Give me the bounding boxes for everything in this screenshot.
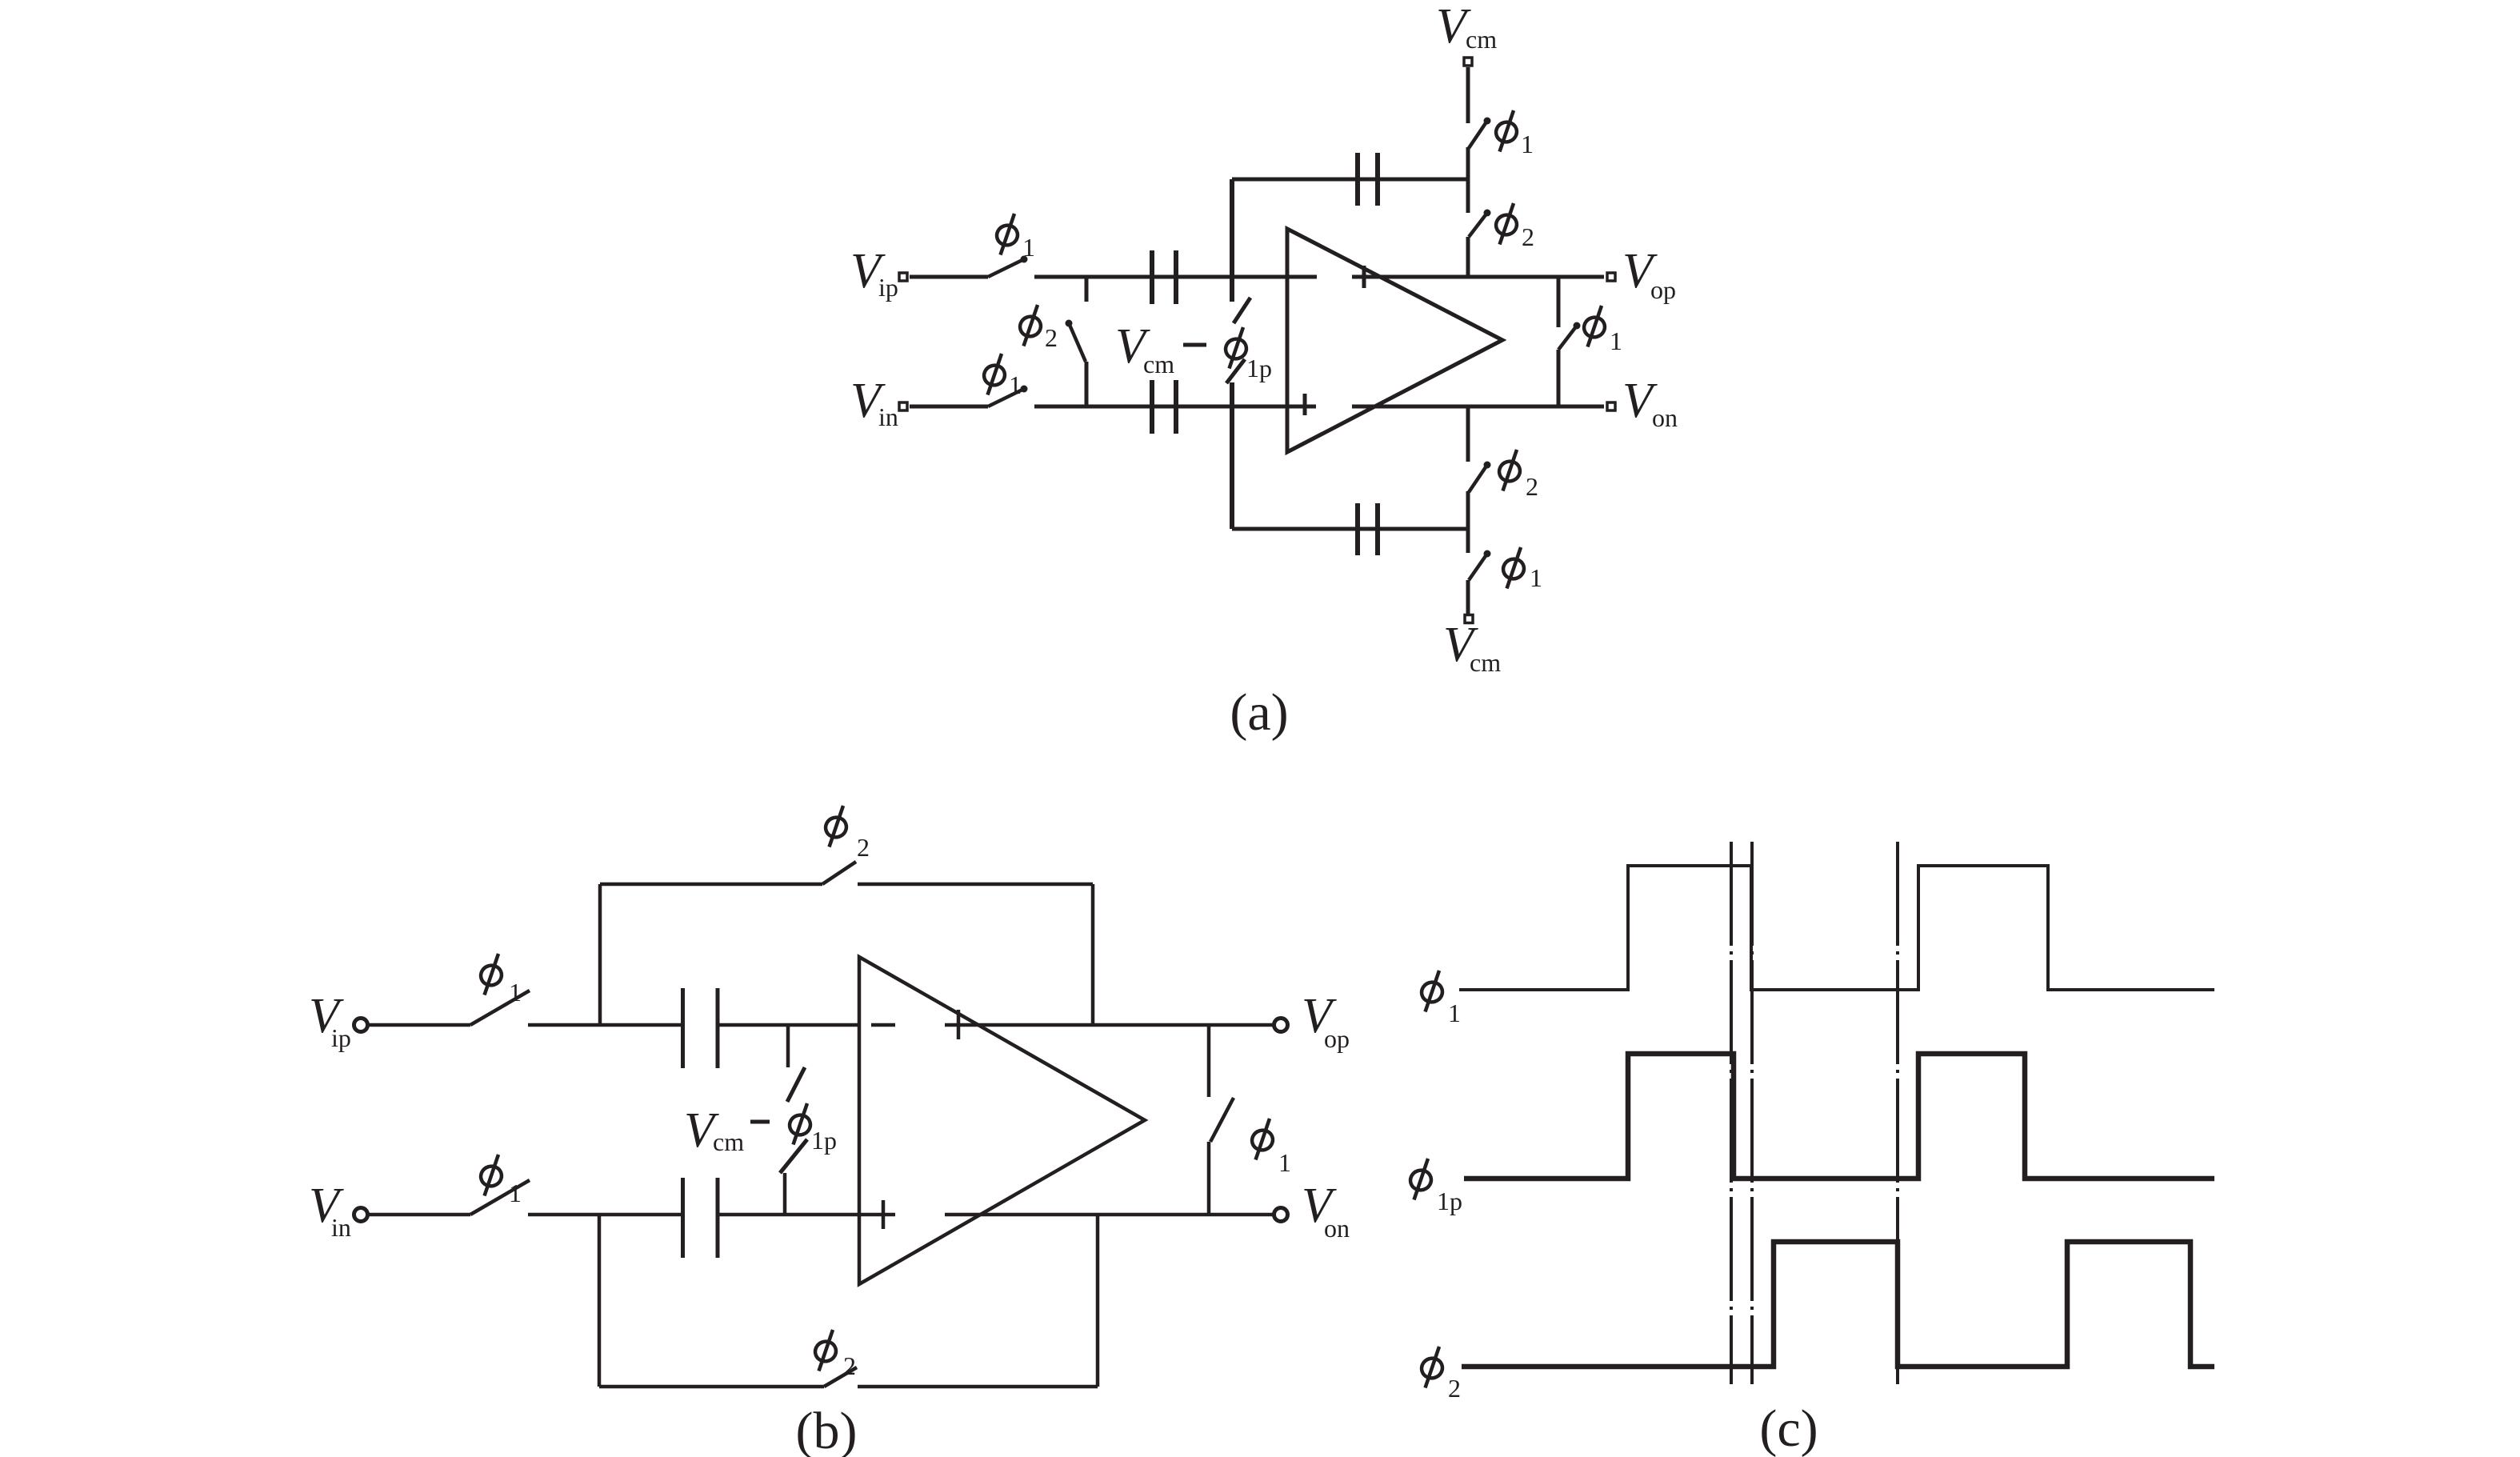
wire top output rail (b) bbox=[945, 1023, 1274, 1027]
node Vcm bottom terminal bbox=[1465, 615, 1473, 623]
label phi2 bottom chain switch (a) bbox=[1497, 450, 1522, 491]
op-amp U2 minus mark top bbox=[871, 1023, 895, 1027]
switch phi1p blade slashes bbox=[1234, 298, 1250, 323]
label phi1p waveform (c) bbox=[1408, 1159, 1434, 1200]
wire top rail after cap (b) bbox=[718, 1023, 859, 1027]
wire bottom feedback row bbox=[1232, 527, 1468, 531]
label phi1 output switch (b) bbox=[1250, 1119, 1275, 1160]
label phi1 waveform (c) bbox=[1419, 971, 1445, 1012]
node Vop output terminal bbox=[1607, 273, 1615, 281]
label phi1 bottom input switch (a) bbox=[982, 354, 1007, 395]
switch phi1p blade slashes (b) bbox=[787, 1067, 805, 1102]
node Vin input terminal bbox=[899, 402, 907, 410]
svg-text:2: 2 bbox=[843, 1351, 856, 1380]
waveform phi1p trace bbox=[1464, 1054, 2214, 1179]
svg-text:1: 1 bbox=[1610, 326, 1622, 355]
label phi2 waveform (c) bbox=[1419, 1347, 1445, 1388]
switch phi1 bottom input blade (b) bbox=[470, 1180, 530, 1215]
svg-text:(b): (b) bbox=[796, 1402, 858, 1457]
wire summing node vertical upper bbox=[1230, 179, 1234, 302]
wire Vin rail left (b) bbox=[368, 1213, 470, 1217]
svg-text:cm: cm bbox=[1470, 648, 1501, 677]
svg-text:op: op bbox=[1324, 1024, 1350, 1053]
svg-text:1: 1 bbox=[1278, 1148, 1291, 1177]
node Vip input terminal (b) bbox=[354, 1019, 368, 1032]
capacitor Cs top input bbox=[1152, 250, 1176, 304]
switch phi1 bottom chain blade bbox=[1469, 554, 1487, 580]
wire Vip rail left bbox=[910, 275, 988, 279]
circuit (b) bbox=[354, 862, 1288, 1387]
label phi2 top chain switch (a) bbox=[1494, 203, 1519, 245]
svg-text:2: 2 bbox=[1522, 222, 1534, 251]
switch phi1 output blade (b) bbox=[1210, 1098, 1234, 1142]
svg-text:in: in bbox=[878, 402, 898, 431]
wire bottom feedback row right (b) bbox=[858, 1385, 1098, 1389]
switch phi1 top chain blade bbox=[1469, 121, 1487, 148]
node Vop output terminal (b) bbox=[1274, 1019, 1288, 1032]
svg-text:1p: 1p bbox=[1246, 354, 1272, 382]
label phi1 top input switch (a) bbox=[994, 214, 1020, 255]
switch phi1 top input blade (b) bbox=[470, 991, 530, 1025]
wire top rail (b) bbox=[528, 1023, 682, 1027]
waveform phi1 trace bbox=[1459, 866, 2214, 990]
switch phi1p lower stub (b) bbox=[783, 1173, 787, 1215]
wire bottom feedback row left (b) bbox=[599, 1385, 824, 1389]
node Von output terminal bbox=[1607, 402, 1615, 410]
wire top rail to opamp bbox=[1034, 275, 1316, 279]
svg-text:2: 2 bbox=[1045, 323, 1058, 352]
wire Vin rail left bbox=[910, 405, 988, 409]
capacitor Cf bottom feedback bbox=[1358, 503, 1378, 555]
svg-text:1: 1 bbox=[1448, 999, 1461, 1027]
op-amp U1 plus output mark top bbox=[1362, 266, 1366, 288]
op-amp U2 plus output mark top bbox=[957, 1010, 961, 1039]
wire Vcm bottom lead bbox=[1466, 580, 1470, 614]
label phi1 top input switch (b) bbox=[478, 954, 504, 995]
node Vin input terminal (b) bbox=[354, 1208, 368, 1222]
svg-text:1: 1 bbox=[509, 1179, 522, 1207]
wire chain to top rail bbox=[1466, 237, 1470, 277]
wire top feedback row right (b) bbox=[858, 883, 1093, 887]
wire bottom output rail bbox=[1352, 405, 1604, 409]
op-amp U2 plus input mark bottom bbox=[882, 1200, 886, 1229]
switch phi1 top input blade bbox=[988, 259, 1024, 277]
wire Vip rail left (b) bbox=[368, 1023, 470, 1027]
switch phi1 bottom input blade bbox=[988, 389, 1024, 406]
wire bottom rail (b) bbox=[528, 1213, 682, 1217]
svg-text:on: on bbox=[1324, 1214, 1350, 1243]
switch phi1 output lower stub (b) bbox=[1207, 1142, 1211, 1215]
phase marker dash-dot line 1 (phi1p fall) bbox=[1730, 842, 1733, 1384]
op-amp U1 bbox=[1287, 229, 1502, 452]
svg-text:in: in bbox=[331, 1213, 351, 1242]
node Von output terminal (b) bbox=[1274, 1208, 1288, 1222]
switch phi2 bottom feedback blade (b) bbox=[824, 1367, 857, 1387]
wire chain mid upper bbox=[1466, 147, 1470, 213]
svg-text:2: 2 bbox=[857, 833, 870, 862]
op-amp U1 minus output mark bottom bbox=[1354, 405, 1376, 409]
label phi1 output switch (a) bbox=[1582, 306, 1607, 347]
svg-text:ip: ip bbox=[878, 273, 898, 302]
node Vcm top terminal bbox=[1464, 58, 1472, 66]
switch phi2 input shorting: upper stub bbox=[1085, 277, 1089, 302]
switch phi2 top feedback blade (b) bbox=[822, 862, 856, 884]
svg-text:1: 1 bbox=[1521, 130, 1534, 158]
label phi1 bottom chain switch (a) bbox=[1501, 547, 1526, 589]
svg-text:1p: 1p bbox=[811, 1126, 837, 1155]
svg-text:cm: cm bbox=[1143, 350, 1174, 378]
capacitor Cs bottom input bbox=[1152, 380, 1176, 434]
phase marker dash-dot line 3 (phi2 fall) bbox=[1896, 842, 1899, 1384]
switch phi1 output: blade bbox=[1558, 326, 1577, 350]
switch phi1 output upper stub (b) bbox=[1207, 1025, 1211, 1097]
svg-text:(a): (a) bbox=[1230, 683, 1288, 742]
svg-text:cm: cm bbox=[1466, 25, 1497, 54]
wire top feedback row left (b) bbox=[600, 883, 822, 887]
capacitor Cf top feedback bbox=[1358, 153, 1378, 206]
op-amp U1 plus input mark bottom bbox=[1303, 394, 1307, 415]
capacitor C2 bottom input (b) bbox=[683, 1178, 718, 1258]
wire chain from bottom rail bbox=[1466, 406, 1470, 462]
svg-text:2: 2 bbox=[1526, 472, 1538, 501]
label phi1 bottom input switch (b) bbox=[478, 1155, 504, 1196]
waveform phi2 trace bbox=[1462, 1242, 2214, 1367]
svg-text:2: 2 bbox=[1448, 1374, 1461, 1403]
svg-text:1p: 1p bbox=[1437, 1187, 1462, 1215]
node Vip input terminal bbox=[899, 273, 907, 281]
switch phi2 bottom chain blade bbox=[1469, 465, 1487, 492]
svg-text:1: 1 bbox=[1022, 233, 1035, 262]
wire bottom rail after cap (b) bbox=[718, 1213, 895, 1217]
wire top output rail bbox=[1352, 275, 1604, 279]
label phi2 input shorting switch (a) bbox=[1018, 305, 1043, 346]
wire summing node vertical lower bbox=[1230, 382, 1234, 529]
wire bottom rail to opamp bbox=[1034, 405, 1316, 409]
wire bottom feedback loop right vertical (b) bbox=[1096, 1215, 1100, 1387]
switch phi2 input shorting: lower stub bbox=[1085, 362, 1089, 406]
label phi2 bottom feedback switch (b) bbox=[813, 1330, 838, 1371]
op-amp U2 bbox=[859, 957, 1145, 1284]
phase marker dash-dot line 2 (phi1 fall) bbox=[1750, 842, 1754, 1384]
svg-text:1: 1 bbox=[1530, 563, 1542, 592]
switch phi1 output: lower stub bbox=[1557, 350, 1561, 406]
label phi2 top feedback switch (b) bbox=[823, 806, 849, 847]
switch phi1 output: upper stub bbox=[1557, 277, 1561, 327]
label phi1 top chain switch (a) bbox=[1494, 110, 1519, 152]
svg-text:1: 1 bbox=[509, 978, 522, 1007]
wire top feedback loop left vertical (b) bbox=[598, 884, 602, 1025]
wire top feedback loop right vertical (b) bbox=[1091, 884, 1095, 1025]
svg-text:op: op bbox=[1650, 275, 1676, 304]
wire top feedback row bbox=[1232, 178, 1468, 182]
svg-text:cm: cm bbox=[713, 1127, 744, 1156]
switch phi1p upper stub (b) bbox=[786, 1025, 790, 1067]
op-amp U1 minus input mark top bbox=[1293, 275, 1317, 279]
wire Vcm top lead bbox=[1466, 67, 1470, 123]
switch phi2 input shorting: blade and dot bbox=[1066, 320, 1073, 327]
wire chain mid lower bbox=[1466, 491, 1470, 553]
svg-text:(c): (c) bbox=[1759, 1399, 1818, 1457]
capacitor C1 top input (b) bbox=[683, 988, 718, 1068]
wire bottom feedback loop left vertical (b) bbox=[598, 1215, 602, 1387]
wire bottom output rail (b) bbox=[945, 1213, 1274, 1217]
svg-text:ip: ip bbox=[331, 1023, 351, 1052]
switch phi2 top chain blade bbox=[1469, 213, 1487, 237]
svg-text:1: 1 bbox=[1009, 370, 1022, 399]
svg-text:on: on bbox=[1652, 403, 1678, 432]
